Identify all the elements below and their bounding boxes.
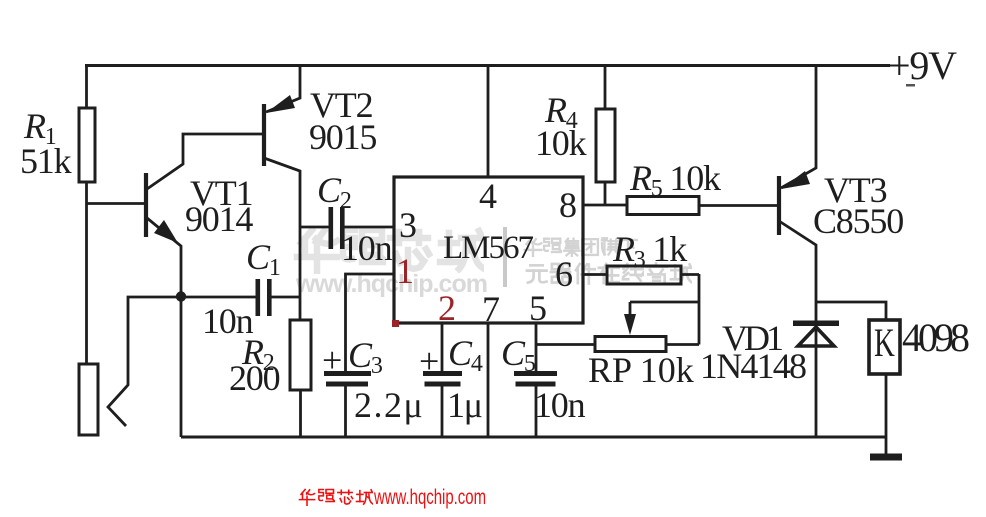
watermark text 华强集团旗下 — [525, 238, 637, 256]
wire pin 8 — [583, 204, 627, 207]
watermark text 元器件在线商城 — [527, 263, 692, 284]
potentiometer RP label — [588, 352, 694, 388]
resistor R1 — [79, 108, 95, 182]
node junction dot — [176, 291, 186, 301]
diode VD1 — [793, 321, 839, 347]
ground — [870, 454, 902, 461]
IC U1 label LM567 — [443, 232, 532, 265]
pin 8 — [559, 187, 576, 223]
watermark logo 华强芯城 — [297, 230, 483, 272]
watermark divider — [503, 227, 507, 287]
wire pin 2 — [441, 323, 444, 371]
wire R4 bottom lead — [604, 182, 607, 205]
op-amp U1 LM567 box — [394, 177, 583, 323]
capacitor C3 label — [322, 342, 341, 378]
pin 3 — [399, 207, 416, 243]
resistor R3 label — [613, 231, 686, 267]
pin 2 — [438, 290, 455, 326]
potentiometer RP — [595, 302, 699, 352]
wire relay bottom — [885, 374, 888, 455]
transistor Q1 VT1 — [146, 134, 264, 297]
capacitor C1 — [256, 279, 302, 316]
capacitor C5 label — [501, 335, 535, 371]
wire VT1 base — [87, 202, 147, 205]
relay K label — [874, 323, 894, 363]
transistor Q3 VT3 — [779, 64, 816, 437]
resistor R5 label — [630, 160, 720, 196]
capacitor C5 — [514, 371, 557, 437]
resistor R2 — [290, 320, 311, 390]
transistor VT1 label — [190, 175, 252, 211]
resistor R4 label — [545, 92, 577, 128]
wire dot to bottom rail — [180, 296, 183, 437]
bottom rail wire — [181, 436, 886, 439]
wire C2 left — [300, 226, 329, 229]
resistor R4 — [596, 109, 615, 182]
wire R3 right vertical — [698, 274, 701, 345]
transducer B — [79, 364, 98, 435]
capacitor C1 label — [246, 239, 280, 275]
transistor Q2 VT2 — [264, 64, 300, 320]
svg-text:www.hqchip.com: www.hqchip.com — [373, 486, 486, 509]
wire VT3 collector to relay — [816, 302, 886, 321]
wire pin 1 stub — [346, 274, 395, 371]
resistor R2 label — [242, 334, 274, 370]
resistor R3 — [607, 266, 699, 284]
red corner mark — [392, 320, 399, 327]
power +9V label — [888, 46, 956, 86]
capacitor C2 label — [317, 172, 351, 208]
relay K — [869, 320, 900, 374]
artifact tick — [906, 84, 915, 87]
transistor VT3 label — [824, 172, 886, 208]
pin 7 — [482, 291, 499, 327]
transistor VT2 label — [310, 87, 372, 123]
wire pin 6 — [583, 273, 607, 276]
capacitor C4 — [423, 371, 462, 437]
wire R1 bottom to transducer — [85, 182, 88, 364]
wire dot to C1 — [181, 296, 256, 299]
+9V power rail — [85, 64, 890, 67]
resistor R5 — [627, 197, 779, 215]
wire pin 4 to rail — [487, 64, 490, 177]
wire pin 7 to ground rail — [487, 323, 490, 437]
wire transducer second terminal — [108, 297, 181, 426]
wire R4 top lead — [604, 64, 607, 109]
pin 4 — [479, 178, 496, 214]
pin 1 — [396, 253, 413, 289]
wire pin 5 — [535, 323, 538, 371]
resistor R1 label — [24, 108, 56, 144]
capacitor C4 label — [419, 343, 438, 379]
pin 6 — [555, 256, 572, 292]
capacitor C3 — [324, 371, 371, 437]
capacitor C2 — [329, 207, 395, 249]
pin 5 — [529, 290, 546, 326]
wire R1 top lead — [85, 64, 88, 108]
wire pin5 to RP left — [536, 343, 595, 346]
wire R2 bottom — [299, 390, 302, 437]
diode VD1 label — [722, 320, 780, 356]
